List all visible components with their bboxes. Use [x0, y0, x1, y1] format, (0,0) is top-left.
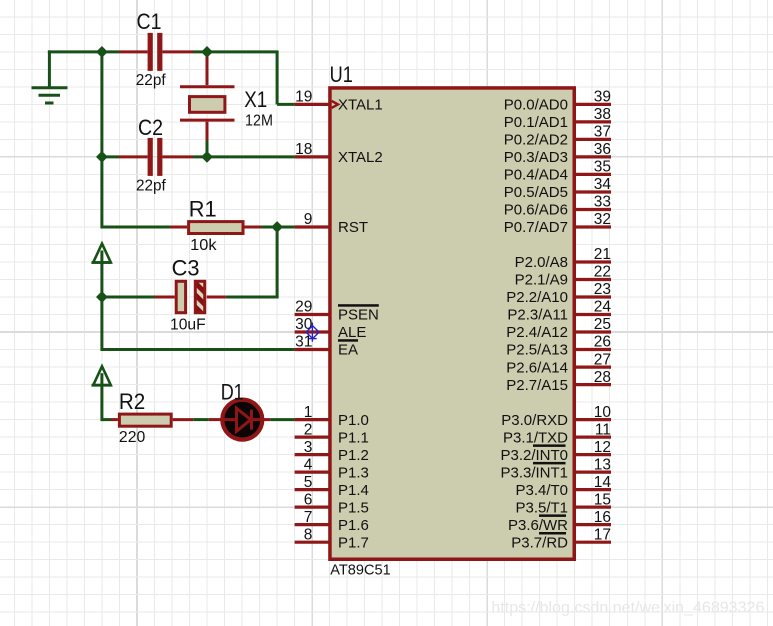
- svg-text:12M: 12M: [245, 113, 273, 130]
- svg-text:36: 36: [594, 141, 611, 158]
- svg-text:P3.6/WR: P3.6/WR: [508, 517, 568, 534]
- svg-text:8: 8: [304, 526, 313, 543]
- svg-text:C2: C2: [138, 115, 163, 140]
- svg-text:P0.4/AD4: P0.4/AD4: [504, 167, 568, 184]
- svg-text:33: 33: [594, 194, 611, 211]
- svg-text:10k: 10k: [190, 237, 217, 254]
- svg-text:P0.3/AD3: P0.3/AD3: [504, 149, 568, 166]
- svg-text:P0.1/AD1: P0.1/AD1: [504, 114, 568, 131]
- svg-text:RST: RST: [338, 219, 368, 236]
- svg-text:P0.5/AD5: P0.5/AD5: [504, 184, 568, 201]
- svg-text:220: 220: [119, 429, 145, 446]
- svg-text:9: 9: [304, 211, 313, 228]
- svg-text:15: 15: [594, 491, 611, 508]
- svg-text:1: 1: [304, 404, 313, 421]
- svg-text:R2: R2: [119, 389, 145, 414]
- svg-text:ALE: ALE: [338, 324, 366, 341]
- svg-text:6: 6: [304, 491, 313, 508]
- svg-text:P1.7: P1.7: [338, 534, 369, 551]
- svg-text:P2.5/A13: P2.5/A13: [506, 342, 568, 359]
- svg-text:XTAL2: XTAL2: [338, 149, 383, 166]
- svg-text:P2.6/A14: P2.6/A14: [506, 359, 568, 376]
- svg-text:30: 30: [295, 316, 313, 333]
- svg-text:EA: EA: [338, 342, 358, 359]
- svg-text:C3: C3: [172, 255, 200, 280]
- svg-text:10: 10: [594, 404, 612, 421]
- svg-text:24: 24: [594, 299, 612, 316]
- svg-text:22pf: 22pf: [136, 177, 166, 194]
- svg-text:P3.2/INT0: P3.2/INT0: [500, 447, 568, 464]
- svg-text:2: 2: [304, 421, 313, 438]
- svg-text:P0.7/AD7: P0.7/AD7: [504, 219, 568, 236]
- svg-text:P1.3: P1.3: [338, 464, 369, 481]
- svg-text:C1: C1: [137, 9, 162, 34]
- svg-text:P1.6: P1.6: [338, 517, 369, 534]
- svg-text:U1: U1: [330, 62, 353, 87]
- svg-text:P3.3/INT1: P3.3/INT1: [500, 464, 568, 481]
- svg-text:22: 22: [594, 264, 611, 281]
- svg-text:P1.0: P1.0: [338, 412, 369, 429]
- svg-text:AT89C51: AT89C51: [330, 563, 390, 579]
- svg-text:39: 39: [594, 89, 611, 106]
- svg-text:P3.4/T0: P3.4/T0: [515, 482, 568, 499]
- svg-text:19: 19: [295, 89, 312, 106]
- svg-text:P2.2/A10: P2.2/A10: [506, 289, 568, 306]
- svg-text:P2.7/A15: P2.7/A15: [506, 377, 568, 394]
- svg-text:16: 16: [594, 509, 611, 526]
- svg-text:P2.0/A8: P2.0/A8: [515, 254, 568, 271]
- svg-text:D1: D1: [221, 380, 244, 405]
- svg-text:P1.1: P1.1: [338, 429, 369, 446]
- svg-text:38: 38: [594, 106, 611, 123]
- svg-text:P1.4: P1.4: [338, 482, 369, 499]
- svg-text:32: 32: [594, 211, 611, 228]
- svg-text:P2.4/A12: P2.4/A12: [506, 324, 568, 341]
- svg-text:26: 26: [594, 334, 611, 351]
- svg-text:P3.0/RXD: P3.0/RXD: [501, 412, 568, 429]
- svg-text:P0.2/AD2: P0.2/AD2: [504, 132, 568, 149]
- svg-text:37: 37: [594, 124, 611, 141]
- svg-text:7: 7: [304, 509, 313, 526]
- svg-text:P2.3/A11: P2.3/A11: [507, 307, 568, 324]
- svg-text:25: 25: [594, 316, 611, 333]
- svg-text:21: 21: [594, 246, 611, 263]
- svg-text:P0.0/AD0: P0.0/AD0: [504, 97, 568, 114]
- svg-text:27: 27: [594, 351, 611, 368]
- svg-text:35: 35: [594, 159, 611, 176]
- svg-text:13: 13: [594, 456, 611, 473]
- svg-text:R1: R1: [189, 196, 217, 221]
- svg-text:P0.6/AD6: P0.6/AD6: [504, 202, 568, 219]
- svg-text:23: 23: [594, 281, 611, 298]
- svg-text:P2.1/A9: P2.1/A9: [515, 272, 568, 289]
- svg-text:29: 29: [295, 299, 312, 316]
- svg-text:https://blog.csdn.net/weixin_4: https://blog.csdn.net/weixin_46893326: [491, 599, 764, 616]
- svg-text:17: 17: [594, 526, 611, 543]
- svg-text:10uF: 10uF: [170, 317, 206, 334]
- svg-text:5: 5: [304, 474, 313, 491]
- svg-text:PSEN: PSEN: [338, 307, 379, 324]
- svg-text:22pf: 22pf: [136, 72, 166, 89]
- svg-text:34: 34: [594, 176, 612, 193]
- svg-text:12: 12: [594, 439, 611, 456]
- svg-text:4: 4: [304, 456, 313, 473]
- svg-text:P3.1/TXD: P3.1/TXD: [503, 429, 568, 446]
- svg-text:P1.5: P1.5: [338, 499, 369, 516]
- svg-text:P1.2: P1.2: [338, 447, 369, 464]
- svg-text:14: 14: [594, 474, 612, 491]
- svg-text:11: 11: [595, 421, 611, 438]
- svg-text:XTAL1: XTAL1: [338, 97, 383, 114]
- svg-text:P3.5/T1: P3.5/T1: [515, 499, 568, 516]
- svg-text:P3.7/RD: P3.7/RD: [511, 534, 568, 551]
- svg-text:3: 3: [304, 439, 313, 456]
- svg-text:X1: X1: [244, 87, 267, 112]
- svg-text:18: 18: [295, 141, 312, 158]
- svg-text:28: 28: [594, 369, 611, 386]
